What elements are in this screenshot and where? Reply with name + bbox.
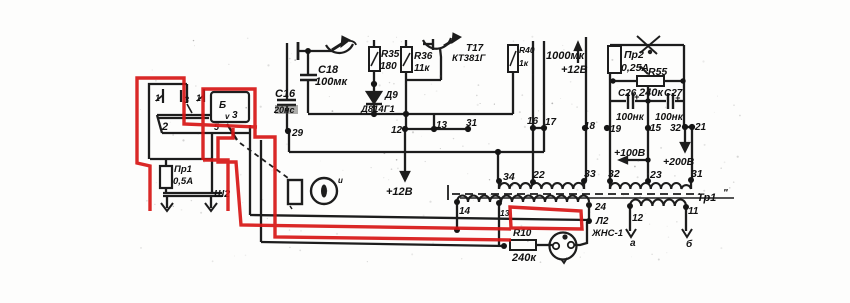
svg-text:21: 21 [694, 122, 707, 133]
svg-text:R55: R55 [648, 66, 667, 78]
svg-text:31: 31 [691, 168, 703, 180]
svg-text:1к: 1к [519, 58, 529, 68]
svg-text:Д9: Д9 [384, 90, 398, 101]
svg-text:19: 19 [610, 124, 622, 135]
svg-text:0,25А: 0,25А [621, 62, 649, 74]
svg-text:29: 29 [291, 128, 304, 139]
svg-text:б: б [686, 238, 693, 250]
svg-text:а: а [630, 238, 636, 249]
svg-text:+200В: +200В [663, 156, 695, 168]
svg-text:+12В: +12В [561, 64, 588, 76]
svg-text:22: 22 [532, 169, 545, 181]
svg-text:Л2: Л2 [595, 216, 609, 227]
svg-text:32: 32 [670, 123, 682, 134]
svg-text:С18: С18 [318, 64, 339, 76]
svg-text:и: и [338, 176, 343, 185]
svg-text:С16: С16 [275, 88, 296, 100]
svg-text:Пр1: Пр1 [174, 164, 192, 175]
svg-text:Д814Г1: Д814Г1 [360, 104, 395, 115]
svg-text:34: 34 [503, 171, 515, 183]
svg-text:16: 16 [527, 116, 539, 127]
svg-text:R40: R40 [519, 45, 535, 55]
svg-text:17: 17 [545, 117, 557, 128]
svg-text:100нк: 100нк [616, 112, 645, 123]
svg-text:32: 32 [608, 168, 620, 180]
svg-text:180: 180 [380, 61, 397, 72]
svg-text:2: 2 [161, 121, 168, 133]
svg-text:0,5А: 0,5А [173, 176, 193, 187]
svg-text:+100В: +100В [614, 147, 646, 159]
svg-text:240к: 240к [511, 252, 537, 264]
svg-text:+: + [675, 93, 681, 103]
svg-text:1000мк: 1000мк [546, 50, 586, 62]
svg-text:33: 33 [584, 168, 596, 180]
svg-text:": " [723, 188, 728, 199]
svg-text:14: 14 [459, 206, 471, 217]
svg-text:v: v [225, 112, 230, 121]
svg-text:23: 23 [649, 169, 662, 181]
svg-text:13: 13 [500, 208, 510, 218]
svg-text:1: 1 [196, 93, 201, 103]
svg-text:Б: Б [219, 100, 226, 111]
svg-text:3: 3 [232, 110, 238, 121]
svg-text:20нс: 20нс [273, 105, 294, 115]
svg-text:11: 11 [688, 206, 699, 217]
svg-text:12: 12 [391, 125, 403, 136]
svg-text:18: 18 [584, 121, 596, 132]
svg-text:КТ381Г: КТ381Г [452, 53, 487, 64]
svg-text:R35: R35 [381, 49, 400, 60]
svg-text:12: 12 [632, 213, 644, 224]
svg-text:100нк: 100нк [655, 112, 684, 123]
svg-text:24: 24 [594, 202, 607, 213]
svg-text:15: 15 [650, 123, 662, 134]
svg-text:+12В: +12В [386, 186, 413, 198]
svg-text:+: + [634, 92, 640, 102]
svg-text:R36: R36 [414, 51, 433, 62]
svg-text:13: 13 [436, 120, 448, 131]
svg-text:Тр1: Тр1 [697, 192, 716, 204]
svg-text:11к: 11к [414, 63, 430, 74]
svg-text:Пр2: Пр2 [624, 49, 644, 61]
svg-text:1: 1 [155, 93, 160, 103]
svg-text:31: 31 [466, 118, 478, 129]
svg-text:100мк: 100мк [315, 76, 348, 88]
svg-text:240к: 240к [638, 87, 664, 99]
